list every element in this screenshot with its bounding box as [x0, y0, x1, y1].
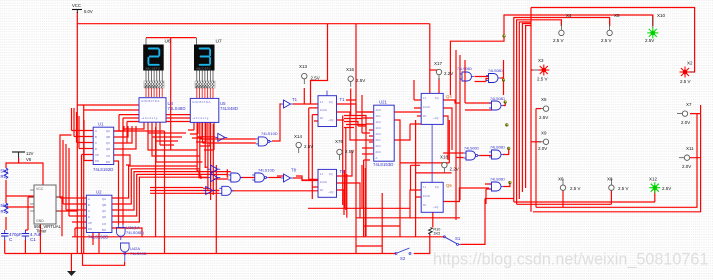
wire bottom probes drops	[563, 190, 655, 207]
wire FF Q4 top link	[430, 69, 439, 71]
svg-text:C: C	[88, 209, 90, 213]
wire X5 drop	[609, 19, 611, 26]
svg-text:74LS153D: 74LS153D	[373, 162, 393, 167]
junction right A2	[505, 123, 508, 126]
svg-text:QC: QC	[106, 141, 110, 145]
svg-text:VCC: VCC	[36, 187, 44, 191]
wire 555 gnd drop	[39, 224, 41, 254]
wire U1 top feeds	[77, 105, 202, 143]
wire display mid drop	[170, 38, 172, 150]
svg-text:GND: GND	[36, 219, 44, 223]
svg-text:X14: X14	[294, 134, 303, 139]
svg-text:X9: X9	[541, 131, 547, 136]
wire 555 top link	[19, 163, 43, 185]
svg-text:X11: X11	[686, 146, 694, 151]
svg-text:Q6: Q6	[446, 183, 452, 188]
svg-text:X2: X2	[687, 61, 693, 66]
wire gate B out	[443, 60, 509, 158]
svg-text:2.0V: 2.0V	[682, 164, 691, 169]
wire U1 left bundle	[72, 108, 94, 254]
switch S2	[395, 248, 411, 261]
wire R1 to R2	[5, 180, 7, 203]
flipflop Q4 74LS73	[421, 93, 452, 124]
wire FF T8 pins	[312, 150, 360, 218]
resistor pack RP1	[144, 81, 164, 89]
svg-text:74LS08D: 74LS08D	[457, 67, 472, 71]
svg-text:2.0V: 2.0V	[681, 120, 690, 125]
svg-text:T1: T1	[292, 97, 298, 102]
svg-text:2.5 V: 2.5 V	[570, 186, 581, 191]
lamp X3 red	[533, 58, 549, 82]
wire T1 top pin	[326, 91, 328, 96]
svg-text:2.5 V: 2.5 V	[601, 38, 612, 43]
svg-text:R2: R2	[1, 209, 7, 214]
wire mid lower verticals	[346, 24, 400, 254]
wire gate out links	[215, 169, 318, 191]
wire R2 555 link	[6, 207, 34, 230]
svg-text:DN: DN	[88, 227, 92, 231]
wire inv T8 out	[296, 176, 318, 180]
wire X10 drop	[652, 15, 654, 26]
svg-text:X5: X5	[541, 97, 547, 102]
lamp X10 green	[645, 13, 666, 43]
svg-text:VCC: VCC	[72, 3, 81, 8]
switch S1	[443, 236, 460, 246]
wire cap C1 drop	[24, 240, 26, 254]
wire FF Q4 left pins	[414, 80, 421, 116]
svg-text:2.2V: 2.2V	[450, 167, 459, 172]
and gate top2 74LS08D	[486, 69, 503, 83]
wire VCC bus drop to FF Q4	[429, 24, 431, 94]
svg-text:X3: X3	[538, 58, 544, 63]
nand gate down U42A	[121, 243, 147, 262]
svg-text:D: D	[88, 215, 90, 219]
wire X5b stub	[536, 108, 541, 110]
svg-text:74LS00D: 74LS00D	[130, 251, 147, 256]
svg-text:74LS10D: 74LS10D	[261, 131, 278, 136]
probe X8	[607, 177, 629, 192]
nand gate 74LS10D a	[256, 131, 278, 146]
svg-text:74LS08D): 74LS08D)	[126, 230, 145, 235]
svg-text:2.5 V: 2.5 V	[618, 186, 629, 191]
capacitor C1	[22, 230, 42, 242]
lamp X2 red	[680, 61, 694, 85]
wire left long vertical A	[76, 24, 78, 254]
svg-text:C: C	[95, 141, 97, 145]
svg-text:1K: 1K	[320, 116, 324, 120]
wire mid bus y218	[308, 165, 460, 237]
svg-text:X10: X10	[657, 13, 666, 18]
wire U7 seg leads	[197, 88, 213, 98]
svg-text:~1Q: ~1Q	[433, 205, 439, 209]
probe X7	[677, 102, 692, 125]
wire gate C in	[485, 183, 510, 205]
ground	[67, 271, 76, 276]
svg-text:74LS08D: 74LS08D	[488, 69, 503, 73]
nand gate 74LS10D b	[252, 168, 274, 183]
svg-text:T8: T8	[291, 168, 297, 173]
svg-text:74LS08D: 74LS08D	[490, 97, 505, 101]
svg-text:74LS10D: 74LS10D	[258, 168, 275, 173]
wire U21 right	[394, 112, 421, 140]
wire bottom right bundle	[533, 105, 701, 212]
wire bottom main bus	[5, 234, 430, 253]
svg-text:S1: S1	[455, 236, 461, 241]
svg-text:A: A	[95, 129, 97, 133]
wire U21 left bundle	[362, 95, 373, 236]
wire top VCC bus	[77, 23, 430, 25]
wire display anode bus	[146, 37, 196, 39]
wire gate g2 out	[277, 175, 284, 177]
power 12V V6	[12, 151, 34, 162]
svg-text:2.5V: 2.5V	[356, 78, 365, 83]
svg-text:QD: QD	[106, 147, 110, 151]
svg-text:T8: T8	[340, 169, 346, 174]
wire FF T1 left pins	[309, 108, 318, 199]
svg-text:~a b c d e f g: ~a b c d e f g	[141, 116, 158, 120]
svg-text:2.5 V: 2.5 V	[553, 38, 564, 43]
wire U2 right bundle	[112, 127, 231, 254]
svg-text:B: B	[88, 203, 90, 207]
svg-text:X5: X5	[614, 13, 620, 18]
flipflop Q6 74LS73	[421, 182, 452, 212]
mux U21 74LS153D	[373, 100, 394, 168]
svg-text:U7: U7	[216, 39, 222, 45]
svg-text:QA: QA	[106, 129, 110, 133]
svg-text:2.5V: 2.5V	[345, 149, 354, 154]
wire U21 low area cross	[356, 226, 400, 246]
wire gate g1 out	[272, 104, 281, 141]
inverter pre-T8	[281, 168, 297, 183]
junction topgate2	[502, 78, 505, 81]
probe X9	[538, 131, 549, 152]
svg-text:2.5 V: 2.5 V	[680, 79, 691, 84]
svg-text:A OC B LT D A: A OC B LT D A	[141, 99, 160, 103]
svg-text:1C3: 1C3	[376, 126, 382, 130]
wire right box left bundle	[514, 18, 655, 205]
wire X2 drop	[690, 64, 695, 72]
svg-text:T1: T1	[340, 97, 346, 102]
svg-text:U2: U2	[96, 190, 102, 195]
svg-text:2C1: 2C1	[376, 138, 382, 142]
svg-text:2.0V: 2.0V	[538, 146, 547, 151]
and gate right C 74LS08D	[489, 178, 505, 192]
resistor R10	[429, 228, 441, 236]
and gate b2	[219, 186, 234, 195]
decoder U4 74LS48D	[139, 98, 185, 123]
probe X15	[335, 139, 354, 160]
svg-text:74LS08D: 74LS08D	[490, 178, 505, 182]
svg-text:~1Q: ~1Q	[328, 118, 334, 122]
wire VCC bus drop to FF T1	[311, 24, 328, 104]
wire U5 bottom pin drops	[194, 122, 214, 150]
wire U4 bottom pin drops	[123, 122, 160, 225]
inverter pre-T1	[281, 97, 298, 108]
svg-text:X7: X7	[686, 102, 692, 107]
svg-text:X8: X8	[607, 177, 613, 182]
svg-text:2C3: 2C3	[376, 150, 382, 154]
wire X9 stub	[531, 141, 541, 143]
wire x487 riser link	[485, 198, 514, 200]
svg-text:1C2: 1C2	[376, 120, 382, 124]
wire left long vertical B	[83, 105, 85, 254]
svg-text:D: D	[95, 147, 97, 151]
7seg display U7 digit 3	[194, 39, 222, 82]
svg-text:X12: X12	[649, 177, 658, 182]
svg-text:74LS00D: 74LS00D	[464, 147, 479, 151]
svg-text:5kΩ: 5kΩ	[1, 203, 10, 208]
svg-text:X16: X16	[346, 67, 355, 72]
flipflop T1 74LS73	[318, 96, 345, 127]
wire R1 555 link	[6, 195, 34, 197]
svg-text:X76: X76	[335, 139, 344, 144]
and gate top 74LS08D	[457, 67, 474, 81]
probe X14	[294, 134, 313, 153]
inverter mid	[215, 133, 227, 141]
svg-text:Q4: Q4	[446, 94, 452, 99]
wire T1 right nest	[343, 116, 370, 211]
svg-text:UP: UP	[88, 221, 92, 225]
resistor R2	[1, 203, 10, 214]
power VCC	[72, 3, 93, 14]
wire X3 link	[531, 69, 533, 71]
wire right inner verticals2	[535, 109, 537, 208]
svg-text:1C0: 1C0	[376, 108, 382, 112]
inverter b1	[203, 187, 215, 195]
probe X5b	[539, 97, 549, 120]
svg-text:74LS48D: 74LS48D	[220, 106, 238, 111]
wire gate return loop	[83, 254, 125, 266]
svg-text:2C0: 2C0	[376, 132, 382, 136]
wire blue link Q4 Q6	[431, 125, 433, 182]
svg-text:QA: QA	[102, 197, 106, 201]
wire U6 anode lead	[145, 38, 147, 45]
inverter low	[208, 165, 220, 173]
timer U8 555	[30, 185, 62, 234]
svg-text:A OC B LT D A: A OC B LT D A	[192, 100, 211, 104]
svg-text:74LS08D: 74LS08D	[490, 146, 505, 150]
wire 555 left links	[25, 197, 34, 230]
wire FF T1 right pins	[337, 104, 374, 140]
svg-text:B: B	[95, 135, 97, 139]
svg-text:U6: U6	[165, 39, 171, 45]
wire U7 anode lead	[195, 38, 197, 45]
svg-text:2.5 V: 2.5 V	[537, 77, 548, 82]
svg-text:5kΩ: 5kΩ	[1, 169, 10, 174]
svg-text:2.5V: 2.5V	[539, 115, 548, 120]
svg-text:74LS48D: 74LS48D	[168, 106, 186, 111]
svg-text:ABCDEFG: ABCDEFG	[146, 66, 161, 70]
probe X17	[434, 61, 453, 80]
and gate right A 74LS08D	[489, 97, 505, 110]
wire U5 bottom fan	[188, 130, 214, 150]
wire VCC drop	[76, 12, 78, 24]
svg-text:C1: C1	[30, 237, 36, 242]
svg-text:Timer: Timer	[36, 229, 47, 234]
svg-text:A: A	[88, 197, 90, 201]
svg-text:S2: S2	[400, 256, 406, 261]
wire U1 right bundle	[114, 126, 136, 225]
wire right outer left vertical	[530, 8, 532, 212]
svg-text:1K: 1K	[320, 188, 324, 192]
flipflop T8 74LS73	[318, 169, 345, 197]
svg-text:QC: QC	[102, 209, 106, 213]
capacitor C	[1, 230, 22, 242]
wire cap C drop	[4, 240, 6, 254]
and gate down U39A	[117, 225, 145, 241]
svg-text:1CLK: 1CLK	[320, 108, 327, 112]
svg-text:1CLK: 1CLK	[320, 180, 327, 184]
svg-text:U21: U21	[379, 100, 387, 105]
wire FF Q4 right pins	[443, 100, 460, 160]
wire S1 net	[461, 199, 485, 245]
junction right C	[508, 181, 511, 184]
junction right B	[507, 147, 510, 150]
wire gate A inputs	[465, 60, 505, 110]
svg-text:QB: QB	[102, 203, 106, 207]
svg-text:UP: UP	[95, 153, 99, 157]
wire mid long bus	[72, 236, 444, 238]
svg-text:~1Q: ~1Q	[328, 190, 334, 194]
svg-text:1K: 1K	[423, 203, 427, 207]
svg-text:1CLK: 1CLK	[423, 194, 430, 198]
wire U2 left bundle	[60, 135, 86, 237]
svg-text:2.5V: 2.5V	[304, 144, 313, 149]
svg-text:X4: X4	[566, 13, 572, 18]
resistor R1	[1, 168, 10, 179]
svg-text:2C2: 2C2	[376, 144, 382, 148]
svg-text:QD: QD	[102, 215, 106, 219]
svg-text:X13: X13	[299, 64, 308, 69]
svg-text:74LS192D: 74LS192D	[93, 167, 113, 172]
svg-text:A: A	[376, 156, 378, 160]
wire X7 net	[690, 114, 701, 158]
counter U2 74LS192D	[86, 190, 112, 240]
svg-text:1C1: 1C1	[376, 114, 382, 118]
wire 555 out2	[56, 197, 62, 236]
svg-text:R1: R1	[1, 174, 7, 179]
junction right A	[504, 100, 507, 103]
probe X13	[299, 64, 320, 84]
svg-text:2.2V: 2.2V	[444, 71, 453, 76]
wire mid riser bundle	[93, 100, 216, 254]
svg-text:2.5V: 2.5V	[311, 76, 320, 81]
svg-text:2.5V: 2.5V	[645, 38, 654, 43]
wire gnd stub	[70, 254, 72, 272]
svg-text:1CLK: 1CLK	[423, 105, 430, 109]
svg-text:DN: DN	[95, 159, 99, 163]
wire U21 out2	[394, 120, 400, 218]
svg-text:https://blog.csdn.net/weixin_5: https://blog.csdn.net/weixin_50810761	[433, 251, 708, 269]
probe X5	[601, 13, 620, 43]
svg-text:1kΩ: 1kΩ	[433, 232, 440, 236]
wire inv T1 out	[293, 88, 351, 116]
svg-text:~1Q: ~1Q	[433, 116, 439, 120]
svg-text:ABCDEFG: ABCDEFG	[196, 66, 211, 70]
svg-text:1K: 1K	[423, 114, 427, 118]
inverter low2	[208, 174, 220, 182]
probe X18	[440, 155, 459, 173]
and gate right B 74LS08D	[489, 146, 505, 160]
wire right outer rect top	[531, 8, 695, 65]
junction topgate	[502, 34, 505, 37]
svg-text:12V: 12V	[26, 151, 34, 156]
svg-text:~a b c d e f g: ~a b c d e f g	[192, 116, 209, 120]
svg-text:U1: U1	[98, 122, 104, 127]
counter U1 74LS192D	[93, 122, 114, 173]
and gate low	[228, 173, 243, 182]
nand gate right 74LS00D	[464, 147, 480, 161]
svg-text:QB: QB	[106, 135, 110, 139]
wire U4 right fan	[148, 133, 203, 162]
svg-text:X18: X18	[440, 155, 449, 160]
wire 12V to R1	[6, 158, 19, 168]
wire FF Q6 area	[410, 120, 489, 237]
probe X6	[558, 177, 581, 192]
decoder U5 74LS48D	[190, 98, 238, 122]
svg-text:2.5V: 2.5V	[662, 186, 671, 191]
probe X4	[553, 13, 572, 43]
probe X11	[679, 146, 694, 169]
wire gates right column riser	[450, 15, 652, 220]
wire X17 drop	[400, 78, 452, 173]
lamp X12 green	[649, 177, 671, 194]
7seg display U6 digit 2	[143, 39, 171, 82]
wire X4 drop	[560, 22, 562, 26]
wire mid cross links	[150, 137, 256, 194]
wire 555 out	[56, 210, 77, 212]
wire U6 seg leads	[146, 88, 162, 97]
svg-text:X17: X17	[434, 61, 443, 66]
resistor pack RP2	[195, 81, 215, 89]
probe X16	[346, 67, 365, 87]
svg-text:5.0V: 5.0V	[84, 9, 93, 14]
svg-text:74LS192D: 74LS192D	[88, 235, 108, 240]
svg-text:V6: V6	[26, 157, 32, 162]
svg-text:X6: X6	[558, 177, 564, 182]
